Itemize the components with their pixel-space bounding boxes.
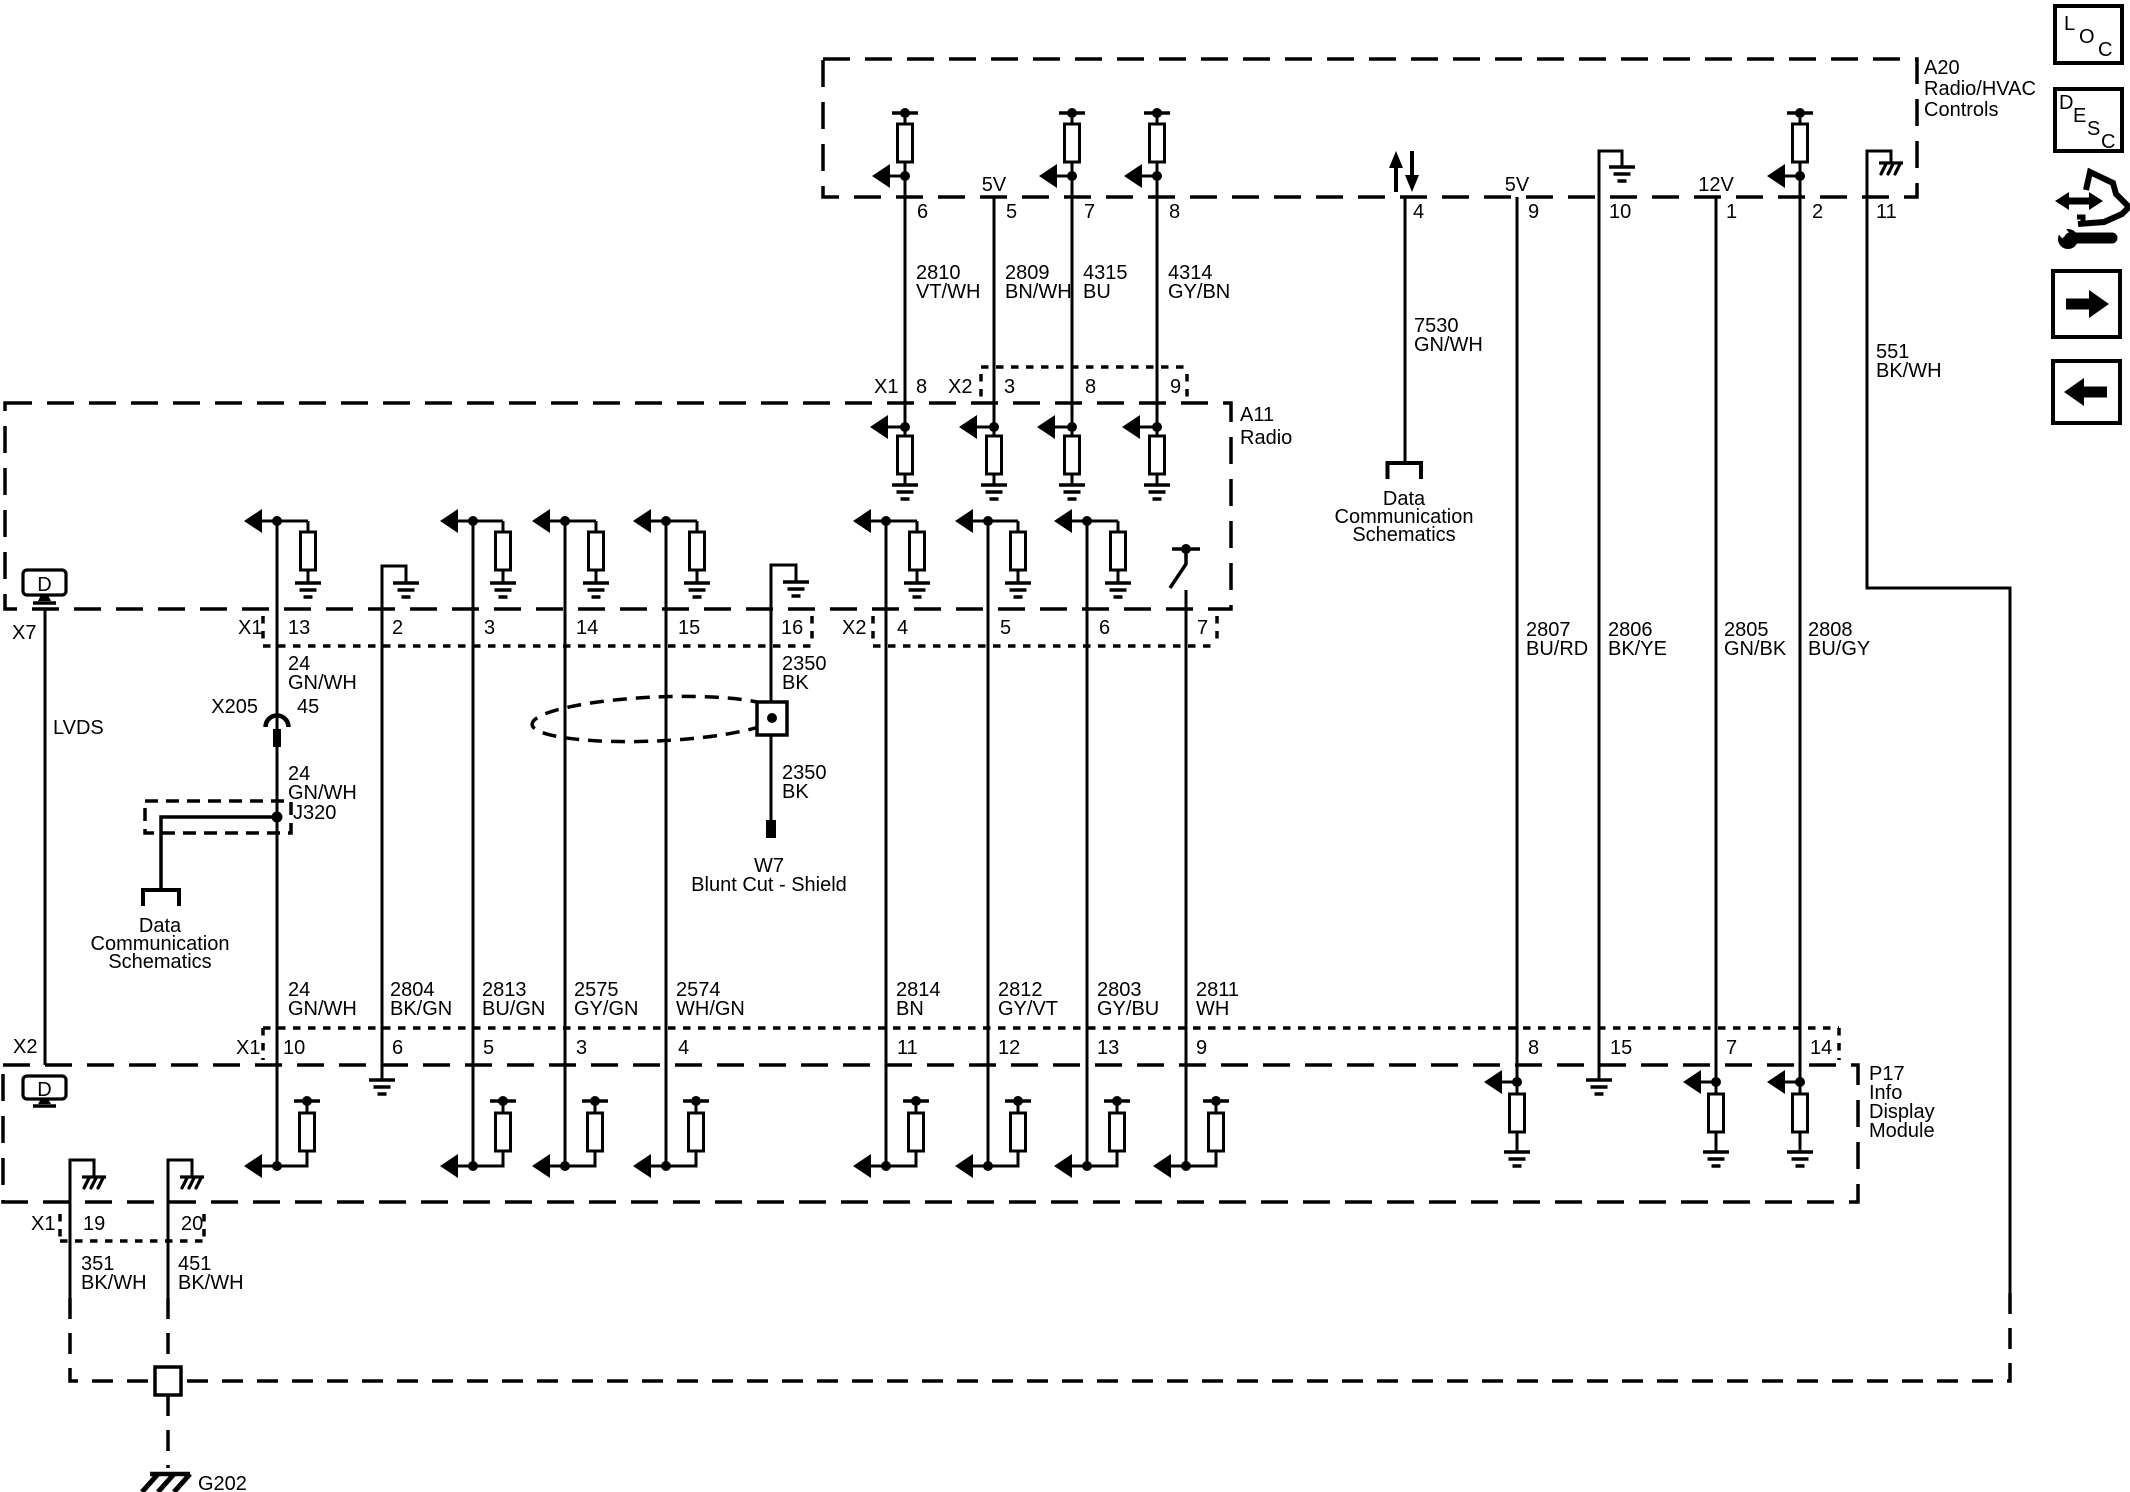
A20 internal resistor on pin 7 <box>1039 108 1085 188</box>
W7 shield square <box>757 702 787 735</box>
svg-text:8: 8 <box>916 376 927 398</box>
LVDS label <box>53 717 104 739</box>
P17 internal ground pin 15 <box>1586 1080 1612 1094</box>
label 351 BK/WH <box>81 1253 147 1294</box>
label 2810 VT/WH <box>916 262 980 303</box>
dashed ground wire from 351 to splice <box>70 1298 155 1381</box>
A11 bottom X1 connector strip <box>263 616 812 646</box>
wire 2575 GY/GN from A11:14 to P17:3 <box>564 521 567 1065</box>
svg-text:14: 14 <box>1810 1037 1832 1059</box>
icon left arrow box <box>2053 361 2120 423</box>
svg-text:Radio: Radio <box>1240 427 1292 449</box>
svg-text:X7: X7 <box>12 622 36 644</box>
A11 internal group pin 15 <box>633 509 710 597</box>
LVDS wire X7 to P17 X2 <box>44 609 47 1065</box>
svg-text:10: 10 <box>1609 201 1631 223</box>
wire 2804 BK/GN from A11:2 to P17:6 <box>381 609 384 1065</box>
P17 label <box>1869 1063 1935 1142</box>
svg-text:45: 45 <box>297 696 319 718</box>
svg-text:4: 4 <box>897 617 908 639</box>
svg-text:5V: 5V <box>982 174 1007 196</box>
svg-text:7: 7 <box>1726 1037 1737 1059</box>
svg-text:4: 4 <box>1413 201 1424 223</box>
svg-text:5: 5 <box>1000 617 1011 639</box>
svg-text:9: 9 <box>1528 201 1539 223</box>
svg-text:3: 3 <box>1004 376 1015 398</box>
label 551 BK/WH <box>1876 341 1942 382</box>
A11 Radio component box <box>5 403 1231 609</box>
shield ellipse <box>531 692 781 747</box>
svg-text:4: 4 <box>678 1037 689 1059</box>
svg-text:BN: BN <box>896 998 924 1020</box>
P17 internal chassis ground hook pin 19 <box>70 1160 106 1202</box>
svg-text:GN/WH: GN/WH <box>288 782 357 804</box>
wire 2809 BN/WH from A20:5 to A11 X2:3 <box>993 197 996 427</box>
P17 internal group pin 5 <box>440 1065 516 1178</box>
svg-text:11: 11 <box>897 1037 918 1059</box>
svg-text:O: O <box>2079 26 2095 48</box>
svg-text:Schematics: Schematics <box>1352 524 1455 546</box>
svg-text:GN/WH: GN/WH <box>1414 334 1483 356</box>
A20 pin numbers <box>917 201 1897 223</box>
label 2813 BU/GN <box>482 979 545 1020</box>
A20 12V label pin 1 <box>1698 174 1734 196</box>
A20 bidirectional data arrows pin 4 <box>1389 151 1419 192</box>
svg-text:X205: X205 <box>211 696 258 718</box>
icon right arrow box <box>2053 271 2120 337</box>
svg-text:BK/WH: BK/WH <box>1876 360 1942 382</box>
svg-text:BN/WH: BN/WH <box>1005 281 1072 303</box>
A20 internal chassis ground on pin 11 <box>1867 151 1903 197</box>
label 2575 GY/GN <box>574 979 638 1020</box>
wire 2810 VT/WH from A20:6 to A11 X1:8 <box>904 176 907 427</box>
svg-text:5: 5 <box>1006 201 1017 223</box>
label 2805 GN/BK <box>1724 619 1787 660</box>
svg-text:WH/GN: WH/GN <box>676 998 745 1020</box>
label 4315 BU <box>1083 262 1128 303</box>
A11 top pin labels <box>874 376 1181 398</box>
svg-text:BK: BK <box>782 781 809 803</box>
dashed ground wire from 451 to splice <box>166 1298 170 1367</box>
label 451 BK/WH <box>178 1253 244 1294</box>
svg-text:C: C <box>2101 131 2115 153</box>
label 2804 BK/GN <box>390 979 452 1020</box>
svg-text:A20: A20 <box>1924 57 1960 79</box>
P17 display D icon <box>23 1076 66 1106</box>
data communication schematics fork at wire 7530 <box>1335 463 1474 546</box>
wire 351 BK/WH from P17:19 <box>69 1202 72 1298</box>
A11 internal switch pin X2:7 <box>1170 544 1200 609</box>
svg-text:14: 14 <box>576 617 598 639</box>
A20 internal resistor on pin 8 <box>1124 108 1170 188</box>
wire 2814 BN from A11 X2:4 to P17:11 <box>885 521 888 1065</box>
svg-text:X2: X2 <box>842 617 866 639</box>
label 2809 BN/WH <box>1005 262 1072 303</box>
P17 internal group pin 8 <box>1484 1070 1530 1166</box>
wire 24 GN/WH from A11 X1:13 to P17 X1:10 <box>276 521 279 1065</box>
A11 internal group pin X1:8 arrow resistor ground <box>870 415 918 499</box>
A20 5V label pin 5 <box>982 174 1007 196</box>
A11 internal ground hook pin 16 <box>771 565 809 609</box>
svg-text:5: 5 <box>483 1037 494 1059</box>
svg-text:L: L <box>2064 13 2075 35</box>
W7 blunt cut bar <box>766 820 776 838</box>
data communication schematics fork left <box>91 890 230 973</box>
svg-text:19: 19 <box>83 1213 105 1235</box>
A11 internal group pin X1:13 arrow resistor ground <box>244 509 321 597</box>
svg-text:6: 6 <box>917 201 928 223</box>
P17 internal group pin 10 <box>244 1065 320 1178</box>
svg-text:A11: A11 <box>1240 404 1274 426</box>
wire 2808 BU/GY from A20:2 to P17:14 <box>1799 176 1802 1082</box>
P17 bottom pin labels <box>31 1213 203 1235</box>
ground G202 <box>142 1473 247 1492</box>
P17 top X1 connector strip <box>263 1028 1839 1060</box>
A11 display D icon <box>23 570 66 603</box>
svg-text:12V: 12V <box>1698 174 1734 196</box>
branch wire from J320 to data communication fork <box>161 817 277 889</box>
icon DESC box <box>2055 89 2122 153</box>
A11 internal group pin X2:6 <box>1054 509 1131 597</box>
svg-text:C: C <box>2098 39 2112 61</box>
A11 internal group pin X2:3 <box>959 415 1007 499</box>
svg-text:Schematics: Schematics <box>108 951 211 973</box>
svg-text:GN/WH: GN/WH <box>288 672 357 694</box>
P17 internal group pin 11 <box>853 1065 929 1178</box>
wire 2807 BU/RD from A20:9 to P17:8 <box>1516 197 1519 1082</box>
A11 X2 top connector strip <box>981 367 1187 397</box>
A20 label <box>1924 57 2036 121</box>
svg-text:GN/BK: GN/BK <box>1724 638 1787 660</box>
svg-text:3: 3 <box>484 617 495 639</box>
P17 internal group pin 7 <box>1683 1070 1729 1166</box>
wire 7530 GN/WH from A20:4 <box>1404 197 1407 463</box>
splice J320 <box>145 801 336 833</box>
svg-text:BK: BK <box>782 672 809 694</box>
svg-text:10: 10 <box>283 1037 305 1059</box>
label 2574 WH/GN <box>676 979 745 1020</box>
wire 2812 GY/VT from A11 X2:5 to P17:12 <box>987 521 990 1065</box>
wire 4315 BU from A20:7 to A11 X2:8 <box>1071 176 1074 427</box>
P17 internal group pin 13 <box>1054 1065 1130 1178</box>
icon vehicle diagnostic with wrench <box>2055 172 2129 249</box>
A20 Radio/HVAC Controls component box <box>823 59 1917 197</box>
svg-text:X1: X1 <box>874 376 898 398</box>
svg-text:8: 8 <box>1169 201 1180 223</box>
label 24 GN/WH lower <box>288 979 357 1020</box>
A11 bottom X2 connector strip <box>873 616 1217 646</box>
P17 bottom X1 connector strip <box>60 1214 204 1241</box>
label 2350 BK upper <box>782 653 827 694</box>
P17 internal group pin 12 <box>955 1065 1031 1178</box>
A11 bottom pin labels <box>12 617 1208 644</box>
svg-text:BK/YE: BK/YE <box>1608 638 1667 660</box>
P17 internal group pin 9 <box>1153 1065 1229 1178</box>
label 2350 BK lower <box>782 762 827 803</box>
svg-text:D: D <box>2059 92 2073 114</box>
svg-text:2: 2 <box>1812 201 1823 223</box>
P17 internal chassis ground hook pin 20 <box>168 1160 204 1202</box>
A20 internal resistor on pin 2 <box>1767 108 1813 188</box>
A20 5V label pin 9 <box>1505 174 1530 196</box>
svg-text:6: 6 <box>392 1037 403 1059</box>
svg-text:GY/BU: GY/BU <box>1097 998 1159 1020</box>
svg-text:12: 12 <box>998 1037 1020 1059</box>
icon LOC box <box>2055 6 2122 63</box>
P17 top pin labels <box>13 1036 1832 1059</box>
wire 2803 GY/BU from A11 X2:6 to P17:13 <box>1086 521 1089 1065</box>
svg-text:15: 15 <box>1610 1037 1632 1059</box>
svg-text:GY/BN: GY/BN <box>1168 281 1230 303</box>
W7 label <box>691 855 847 896</box>
svg-text:2: 2 <box>392 617 403 639</box>
label 2808 BU/GY <box>1808 619 1870 660</box>
svg-text:VT/WH: VT/WH <box>916 281 980 303</box>
svg-text:3: 3 <box>576 1037 587 1059</box>
svg-text:X1: X1 <box>238 617 262 639</box>
svg-text:13: 13 <box>288 617 310 639</box>
svg-text:X1: X1 <box>236 1037 260 1059</box>
label 2807 BU/RD <box>1526 619 1588 660</box>
A20 internal resistor on pin 6 <box>872 108 918 188</box>
label 2814 BN <box>896 979 941 1020</box>
svg-text:16: 16 <box>781 617 803 639</box>
svg-text:GN/WH: GN/WH <box>288 998 357 1020</box>
svg-text:6: 6 <box>1099 617 1110 639</box>
svg-text:LVDS: LVDS <box>53 717 104 739</box>
wire 2806 BK/YE from A20:10 to P17:15 <box>1598 197 1601 1080</box>
wire 4314 GY/BN from A20:8 to A11 X2:9 <box>1156 176 1159 427</box>
svg-text:J320: J320 <box>293 802 336 824</box>
wire 2813 BU/GN from A11:3 to P17:5 <box>472 521 475 1065</box>
A11 internal group pin X2:8 <box>1037 415 1085 499</box>
svg-text:11: 11 <box>1876 201 1897 223</box>
A11 internal group pin 3 <box>440 509 516 597</box>
svg-text:E: E <box>2073 105 2086 127</box>
A20 internal ground on pin 10 <box>1599 151 1635 197</box>
svg-text:X2: X2 <box>13 1036 37 1058</box>
inline connector X205 <box>211 696 319 747</box>
wire 2350 BK from A11:16 to W7 <box>770 609 773 820</box>
svg-text:9: 9 <box>1196 1037 1207 1059</box>
svg-text:D: D <box>37 1079 51 1101</box>
svg-text:13: 13 <box>1097 1037 1119 1059</box>
svg-text:BU: BU <box>1083 281 1111 303</box>
svg-text:15: 15 <box>678 617 700 639</box>
label 2812 GY/VT <box>998 979 1058 1020</box>
svg-text:BK/WH: BK/WH <box>81 1272 147 1294</box>
svg-text:WH: WH <box>1196 998 1229 1020</box>
A11 internal group pin X2:9 <box>1122 415 1170 499</box>
svg-text:S: S <box>2087 118 2100 140</box>
svg-text:BK/WH: BK/WH <box>178 1272 244 1294</box>
svg-text:GY/GN: GY/GN <box>574 998 638 1020</box>
wire 451 BK/WH from P17:20 <box>167 1202 170 1298</box>
svg-text:8: 8 <box>1085 376 1096 398</box>
wire 2811 WH from A11 X2:7 to P17:9 <box>1185 590 1188 1065</box>
ground splice junction box <box>155 1367 181 1395</box>
svg-text:5V: 5V <box>1505 174 1530 196</box>
svg-text:BU/GN: BU/GN <box>482 998 545 1020</box>
label 24 GN/WH upper <box>288 653 357 694</box>
P17 internal ground pin 6 <box>369 1065 395 1094</box>
wire 551 BK/WH from A20:11 to G202 run <box>1867 151 2010 1293</box>
svg-text:Controls: Controls <box>1924 99 1998 121</box>
svg-text:BK/GN: BK/GN <box>390 998 452 1020</box>
dashed ground wire from 551 run to splice <box>181 1293 2010 1381</box>
svg-text:Radio/HVAC: Radio/HVAC <box>1924 78 2036 100</box>
A11 internal ground hook pin 2 <box>382 566 419 609</box>
A11 label <box>1240 404 1292 449</box>
label 7530 GN/WH <box>1414 315 1483 356</box>
svg-text:1: 1 <box>1726 201 1737 223</box>
svg-text:9: 9 <box>1170 376 1181 398</box>
wire 2805 GN/BK from A20:1 to P17:7 <box>1715 197 1718 1082</box>
label 2803 GY/BU <box>1097 979 1159 1020</box>
svg-text:20: 20 <box>181 1213 203 1235</box>
wire 2574 WH/GN from A11:15 to P17:4 <box>665 521 668 1065</box>
svg-text:BU/RD: BU/RD <box>1526 638 1588 660</box>
P17 internal group pin 14 <box>1767 1070 1813 1166</box>
label 2806 BK/YE <box>1608 619 1667 660</box>
svg-text:X1: X1 <box>31 1213 55 1235</box>
svg-text:BU/GY: BU/GY <box>1808 638 1870 660</box>
dashed wire from splice to G202 <box>166 1395 170 1468</box>
svg-text:8: 8 <box>1528 1037 1539 1059</box>
P17 internal group pin 3 <box>532 1065 608 1178</box>
label 4314 GY/BN <box>1168 262 1230 303</box>
P17 internal group pin 4 <box>633 1065 709 1178</box>
svg-text:7: 7 <box>1197 617 1208 639</box>
P17 Info Display Module component box <box>3 1065 1858 1202</box>
A11 internal group pin X2:4 <box>853 509 930 597</box>
A11 internal group pin X2:5 <box>955 509 1031 597</box>
svg-text:GY/VT: GY/VT <box>998 998 1058 1020</box>
svg-text:G202: G202 <box>198 1473 247 1492</box>
svg-text:7: 7 <box>1084 201 1095 223</box>
label 24 GN/WH middle <box>288 763 357 804</box>
A11 internal group pin 14 <box>532 509 609 597</box>
svg-text:X2: X2 <box>948 376 972 398</box>
svg-text:D: D <box>37 574 51 596</box>
label 2811 WH <box>1196 979 1239 1020</box>
svg-text:Module: Module <box>1869 1120 1935 1142</box>
svg-text:Blunt Cut - Shield: Blunt Cut - Shield <box>691 874 847 896</box>
